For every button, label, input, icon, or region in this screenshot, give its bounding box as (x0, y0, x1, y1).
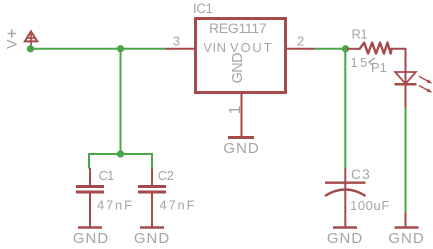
pin 3 stub VIN (165, 48, 195, 50)
svg-text:V: V (3, 39, 19, 49)
svg-text:100uF: 100uF (350, 198, 390, 213)
junction dot at V+ (27, 45, 34, 52)
svg-text:REG1117: REG1117 (209, 20, 267, 36)
wire VOUT to R1 junction (315, 48, 346, 50)
svg-text:1: 1 (227, 106, 244, 115)
ground under C2 (140, 226, 164, 229)
LED P1 (395, 71, 429, 108)
junction dot at C1/C2 branch (117, 150, 124, 157)
svg-text:C2: C2 (158, 168, 174, 183)
LED arrow heads (427, 79, 433, 83)
svg-text:GND: GND (223, 140, 259, 157)
capacitor C2 (138, 168, 166, 227)
wire vertical from junction to cap branch (120, 49, 122, 154)
svg-text:GND: GND (388, 230, 424, 247)
svg-text:2: 2 (297, 34, 304, 49)
wire LED to ground red tail (405, 213, 407, 227)
capacitor C1 (76, 168, 104, 227)
ground under C1 (78, 226, 102, 229)
svg-text:15: 15 (351, 55, 370, 70)
ground under LED (395, 226, 419, 229)
svg-text:R1: R1 (352, 27, 368, 42)
capacitor C3 polarized (325, 168, 366, 227)
svg-text:VIN: VIN (203, 40, 226, 55)
wire R1 to LED anode (392, 49, 406, 72)
junction dot at R1 tap (342, 45, 349, 52)
supply symbol V+ (25, 31, 37, 48)
svg-text:C3: C3 (351, 167, 371, 182)
wire cap branch horizontal (89, 153, 152, 155)
svg-text:3: 3 (173, 34, 180, 49)
svg-text:VOUT: VOUT (230, 40, 273, 55)
junction dot at cap branch tap (117, 45, 124, 52)
value pointer chevron (369, 58, 375, 66)
svg-text:GND: GND (230, 53, 246, 84)
svg-text:P1: P1 (371, 60, 387, 75)
ground under IC1 (228, 136, 254, 139)
ground under C3 (333, 226, 357, 229)
svg-text:47nF: 47nF (97, 197, 134, 212)
svg-text:47nF: 47nF (160, 197, 197, 212)
wire LED cathode down (405, 108, 407, 214)
svg-text:GND: GND (327, 230, 363, 247)
svg-text:C1: C1 (99, 168, 114, 183)
wire C2 drop (151, 153, 153, 169)
svg-text:GND: GND (73, 230, 109, 247)
svg-text:GND: GND (134, 230, 170, 247)
wire main horizontal V+ to VIN (31, 48, 166, 50)
resistor R1 (347, 48, 360, 50)
wire C1 drop (88, 153, 90, 169)
svg-text:IC1: IC1 (193, 1, 213, 16)
IC IC1 REG1117 body (196, 19, 286, 93)
wire junction down to C3 (344, 49, 346, 169)
pin 1 stub GND (241, 94, 243, 137)
pin 2 stub VOUT (286, 48, 315, 50)
